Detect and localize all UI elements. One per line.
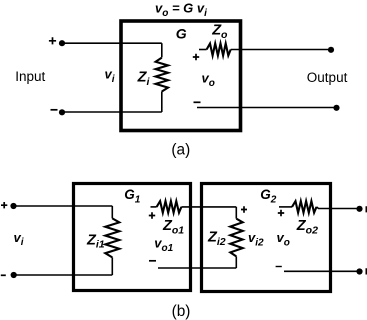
svg-text:Zi: Zi (137, 69, 151, 87)
amplifier block box 2 (b) (202, 184, 331, 292)
wire Zi bottom lead (a) (161, 92, 163, 113)
minus sign vo (a) (194, 101, 201, 103)
wire input - to Zi1 bottom (b) (14, 274, 113, 276)
wire Zo left stub (a) (199, 49, 207, 51)
svg-text:G2: G2 (260, 187, 277, 205)
svg-text:Zi1: Zi1 (86, 232, 105, 250)
svg-text:Zo2: Zo2 (296, 218, 318, 236)
plus sign input (b) (1, 202, 7, 208)
node output - terminal (a) (333, 105, 339, 111)
svg-text:(b): (b) (172, 303, 191, 320)
svg-text:vo: vo (277, 230, 290, 248)
wire Zo2 left stub (279, 206, 292, 208)
node output - terminal (b) (356, 268, 362, 274)
node input - terminal (b) (11, 272, 17, 278)
cropped minus mark right edge bottom (366, 268, 367, 274)
svg-text:Zi2: Zi2 (207, 229, 226, 247)
amplifier block box 1 (b) (74, 184, 191, 291)
svg-text:Zo: Zo (211, 23, 228, 41)
amplifier block box (a) (121, 21, 241, 131)
wire Zo2 to output + terminal (b) (317, 207, 360, 209)
svg-text:vo: vo (202, 71, 215, 89)
svg-text:Input: Input (15, 69, 45, 84)
plus sign vo1 source (149, 212, 155, 218)
svg-text:Output: Output (307, 70, 348, 85)
node output + terminal (b) (356, 206, 362, 212)
resistor Zi (a) (156, 58, 168, 92)
plus sign vi2 (241, 206, 247, 212)
svg-text:G: G (176, 26, 187, 42)
plus sign input (a) (49, 37, 56, 44)
resistor Zi1 (105, 218, 119, 257)
cropped plus mark right edge top (366, 206, 367, 212)
resistor Zo (a) (207, 44, 231, 56)
wire Zi1 top lead (111, 206, 113, 218)
svg-text:vi: vi (105, 67, 115, 85)
wire Zo1 left stub (151, 206, 157, 208)
minus sign vo1 (149, 260, 156, 262)
resistor Zo2 (292, 201, 317, 213)
svg-text:vi: vi (14, 230, 24, 248)
wire vo - to output - terminal (a) (197, 107, 337, 109)
wire input - to Zi bottom (a) (62, 111, 162, 113)
wire Zo to output + terminal (a) (231, 49, 331, 51)
svg-text:G1: G1 (124, 187, 141, 205)
minus sign input (b) (1, 274, 6, 276)
plus sign vo source (a) (193, 54, 199, 60)
wire Zi2 top lead (235, 207, 237, 219)
resistor Zo1 (157, 201, 182, 213)
wire vo - to output - terminal (b) (284, 270, 360, 272)
svg-text:vo1: vo1 (154, 236, 173, 254)
minus sign vo (b) (276, 266, 282, 268)
svg-text:Zo1: Zo1 (162, 218, 184, 236)
minus sign input (a) (51, 109, 58, 111)
wire input + to Zi top (a) (62, 42, 162, 44)
wire vo1 - to Zi2 bottom (through box edges) (158, 267, 236, 269)
svg-text:vo = G vi: vo = G vi (155, 1, 207, 19)
node input - terminal (a) (59, 109, 65, 115)
wire Zi1 bottom lead (111, 257, 113, 275)
node input + terminal (a) (59, 40, 65, 46)
node input + terminal (b) (10, 203, 16, 209)
svg-text:vi2: vi2 (248, 230, 264, 248)
wire Zi2 bottom lead (235, 256, 237, 268)
resistor Zi2 (230, 219, 242, 257)
plus sign vo source (b) (278, 210, 284, 216)
svg-text:(a): (a) (171, 141, 190, 158)
wire Zo1 to Zi2 top (through box edges) (181, 206, 236, 208)
wire input + to Zi1 top (b) (14, 205, 113, 207)
node output + terminal (a) (328, 47, 334, 53)
wire Zi top lead (a) (161, 43, 163, 57)
